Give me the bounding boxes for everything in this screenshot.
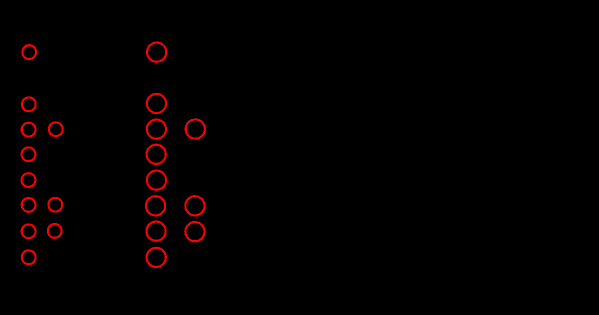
- circle C2 (col 3, row 2): [147, 94, 166, 113]
- circle A6 (col 1, row 6): [22, 198, 36, 212]
- circle D6 (col 4, row 6): [185, 196, 204, 215]
- circle D3 (col 4, row 3): [186, 120, 205, 139]
- circle A4 (col 1, row 4): [22, 147, 36, 161]
- circle C4 (col 3, row 4): [147, 145, 166, 164]
- circle A2 (col 1, row 2): [22, 97, 36, 111]
- circle A8 (col 1, row 8): [22, 250, 36, 264]
- circle C7 (col 3, row 7): [147, 222, 166, 241]
- circle B6 (col 2, row 6): [48, 198, 62, 212]
- circle C6 (col 3, row 6): [146, 196, 165, 215]
- circle D7 (col 4, row 7): [185, 222, 204, 241]
- circle A1 (col 1, row 1): [22, 45, 36, 59]
- circle C8 (col 3, row 8): [147, 248, 166, 267]
- circle B3 (col 2, row 3): [49, 122, 63, 136]
- circle C5 (col 3, row 5): [147, 171, 166, 190]
- circle C3 (col 3, row 3): [147, 120, 166, 139]
- circle B7 (col 2, row 7): [48, 224, 62, 238]
- circle A3 (col 1, row 3): [22, 123, 36, 137]
- circle A7 (col 1, row 7): [22, 224, 36, 238]
- circle A5 (col 1, row 5): [22, 173, 36, 187]
- circle C1 (col 3, row 1): [147, 43, 166, 62]
